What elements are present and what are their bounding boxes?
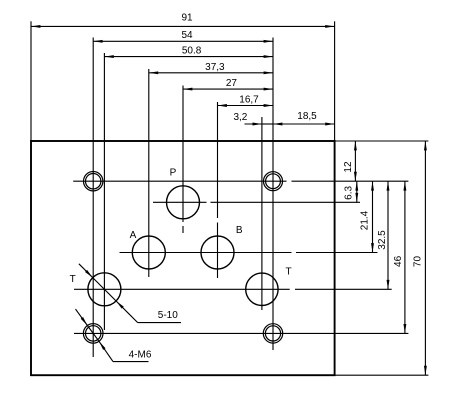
svg-text:37,3: 37,3 <box>205 62 225 73</box>
svg-text:6.3: 6.3 <box>343 186 354 200</box>
wire centerline T row <box>74 288 290 290</box>
wire centerline P row <box>153 201 207 203</box>
dimension 18.5 line <box>273 123 335 125</box>
svg-text:46: 46 <box>393 255 404 267</box>
wire extension/centerline column B <box>217 102 219 218</box>
wire extension/centerline column F1 <box>92 38 94 358</box>
leader 5-10 shelf <box>138 322 181 324</box>
leader 4-M6 shelf <box>113 361 149 363</box>
dimension 46 line <box>404 181 406 333</box>
wire centerline dash below P <box>182 226 184 233</box>
svg-text:T: T <box>286 267 292 278</box>
dimension 37.3 line <box>149 72 273 74</box>
wire centerline A-B row <box>120 252 292 254</box>
svg-text:18,5: 18,5 <box>297 111 317 122</box>
port T left <box>88 273 121 306</box>
port A <box>132 236 165 269</box>
svg-text:P: P <box>170 168 177 179</box>
leader 5-10 lower segment <box>116 301 138 323</box>
leader 4-M6 through hole <box>87 326 99 342</box>
dimension 6.3 line <box>356 181 358 202</box>
dimension 12 line <box>354 141 356 181</box>
wire top edge extension right <box>335 140 429 142</box>
wire bottom edge extension right <box>335 374 429 376</box>
bolt hole F1 <box>84 172 103 191</box>
svg-text:27: 27 <box>226 78 238 89</box>
svg-text:91: 91 <box>181 13 193 24</box>
wire extension/centerline column A <box>148 69 150 277</box>
svg-text:54: 54 <box>181 30 193 41</box>
wire centerline P row right part <box>211 201 361 203</box>
svg-text:4-M6: 4-M6 <box>129 350 152 361</box>
svg-text:12: 12 <box>343 161 354 173</box>
leader 5-10 upper segment <box>79 264 93 278</box>
leader 4-M6 upper segment <box>76 309 88 325</box>
dimension 27 line <box>183 88 273 90</box>
wire extension/centerline column T-right <box>261 117 263 310</box>
svg-text:50.8: 50.8 <box>182 45 202 56</box>
svg-text:T: T <box>70 274 76 285</box>
wire extension/centerline column F2 <box>272 38 274 351</box>
wire centerline dash above B <box>217 223 219 279</box>
wire centerline bolt row top <box>73 180 286 182</box>
wire centerline bolt row top right part <box>292 180 409 182</box>
bolt hole F4 <box>263 324 282 343</box>
leader 4-M6 lower segment <box>99 341 113 361</box>
wire extension/centerline column P <box>182 86 184 223</box>
port T right <box>246 273 278 305</box>
svg-text:5-10: 5-10 <box>158 310 178 321</box>
wire extension/centerline column T-left <box>103 53 105 330</box>
dimension 3.2 tail with arrow <box>245 123 262 125</box>
wire extension right-edge above plate <box>334 21 336 141</box>
dimension 91 line <box>31 25 335 27</box>
wire between 3.2 arrows <box>262 123 273 125</box>
dimension 70 line <box>424 141 426 375</box>
svg-text:16,7: 16,7 <box>239 94 259 105</box>
svg-text:B: B <box>236 225 243 236</box>
leader 5-10 through circle <box>93 278 116 301</box>
port P <box>167 186 200 219</box>
dimension 54 line <box>93 40 273 42</box>
wire centerline A-B row right part <box>296 252 378 254</box>
wire extension left-edge above plate <box>30 21 32 141</box>
bolt hole F3 <box>83 324 103 344</box>
port B <box>201 236 234 269</box>
bolt hole F2 <box>264 172 283 191</box>
plate outline <box>31 141 335 375</box>
svg-text:A: A <box>130 230 137 241</box>
dimension 21.4 line <box>372 181 374 252</box>
svg-text:3,2: 3,2 <box>233 112 247 123</box>
wire centerline T row right part <box>295 288 392 290</box>
dimension 16.7 line <box>218 105 274 107</box>
svg-text:70: 70 <box>413 256 424 268</box>
dimension 32.5 line <box>387 181 389 289</box>
svg-text:32.5: 32.5 <box>377 230 388 250</box>
dimension 50.8 line <box>104 56 273 58</box>
wire centerline bolt row bottom <box>74 332 408 334</box>
svg-text:21.4: 21.4 <box>360 210 371 230</box>
